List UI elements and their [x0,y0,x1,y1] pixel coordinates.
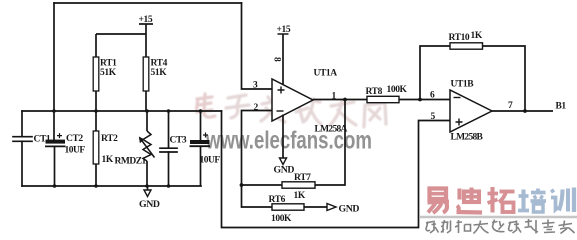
watermark logo char pei (blue) [518,189,546,213]
svg-text:www.elecfans.com: www.elecfans.com [205,127,372,155]
wire top rail [54,2,242,4]
svg-text:100K: 100K [271,214,292,224]
svg-text:1K: 1K [294,191,306,201]
power +15 for UT1A pin8 [278,34,289,85]
resistor RT2 [93,111,99,186]
node dots on bottom rail [53,184,171,188]
svg-text:UT1B: UT1B [451,80,475,90]
svg-text:RT7: RT7 [294,173,311,183]
resistor RT7 1K with feedback wire [242,100,346,189]
resistor RT6 100K to ground arrow [242,204,337,211]
svg-text:RMDZ1: RMDZ1 [115,157,147,167]
svg-text:UT1A: UT1A [314,69,338,79]
resistor RT1 [93,34,99,111]
watermark logo char yi (red) [428,189,450,214]
svg-text:1K: 1K [102,155,114,165]
svg-text:+15: +15 [277,25,291,35]
watermark logo rule [420,216,577,218]
wire rail turn down to bottom loop and up to pin5 [222,111,451,228]
svg-text:RT1: RT1 [100,59,117,69]
svg-text:B1: B1 [556,102,567,112]
svg-text:51K: 51K [151,68,168,78]
svg-text:8: 8 [272,57,282,62]
svg-text:2: 2 [254,103,259,113]
svg-text:100K: 100K [387,85,408,95]
capacitor CT4 (polarized 10UF) [190,111,211,186]
power +15 rail for RT1/RT4 [96,24,153,34]
node dot RT7 top [343,98,347,102]
wire output of UT1A to UT1B pin6 [313,99,450,101]
node dots on mid rail [52,109,202,113]
op-amp U1B (UT1B LM258B) [450,90,492,132]
wire mid rail y=111 [22,110,222,112]
watermark logo char tuo (red) [488,187,515,213]
svg-text:6: 6 [430,91,435,101]
svg-text:10UF: 10UF [65,146,86,156]
svg-text:7: 7 [508,101,513,111]
svg-text:51K: 51K [100,68,117,78]
svg-text:3: 3 [253,81,258,91]
svg-text:LM258B: LM258B [451,133,484,143]
svg-text:RT8: RT8 [366,87,383,97]
svg-text:RT10: RT10 [449,33,470,43]
resistor RT4 [143,34,149,111]
wire output B1 [492,110,553,112]
watermark tagline she-pin-he-tian-xian-she-ji-zhuan-jia [426,219,575,234]
resistor RT10 1K feedback of UT1B [420,43,525,111]
svg-text:10UF: 10UF [200,156,221,166]
capacitor CT1 [13,111,32,186]
resistor RT8 100K [367,96,399,102]
svg-text:RT4: RT4 [151,59,168,69]
svg-text:GND: GND [339,204,360,215]
op-amp U1A (UT1A LM258A) [272,79,313,121]
watermark: faded brush characters dian-zi-fa-shao-you-wang [197,94,386,127]
wire left vertical from top rail to CT2 [53,3,55,140]
watermark logo char xun (blue) [551,188,574,213]
svg-text:RT2: RT2 [101,134,118,144]
node dot RT10 left [418,98,422,102]
wire top rail drop to pin3 [242,3,273,89]
svg-text:+15: +15 [139,15,153,25]
wire pin2 vertical down to RT6 and pin2 stub [242,111,273,208]
svg-text:GND: GND [139,199,160,210]
svg-text:CT2: CT2 [66,134,83,144]
ground for UT1A pin4 [280,115,287,165]
wire bottom rail y=186 [22,185,201,187]
node dot RT10 right [523,109,527,113]
watermark logo char di (red) [457,188,483,213]
svg-text:GND: GND [274,165,295,176]
svg-text:RT6: RT6 [269,195,286,205]
ground symbol below bottom rail [144,186,151,197]
capacitor CT3 [160,111,177,186]
svg-text:LM258A: LM258A [315,125,348,135]
svg-text:CT3: CT3 [170,136,187,146]
svg-text:1K: 1K [471,31,483,41]
svg-text:5: 5 [431,112,436,122]
capacitor CT2 (polarized 10UF) [45,133,66,186]
varistor RMDZ1 [139,111,155,186]
node dot RT7 left [240,183,244,187]
